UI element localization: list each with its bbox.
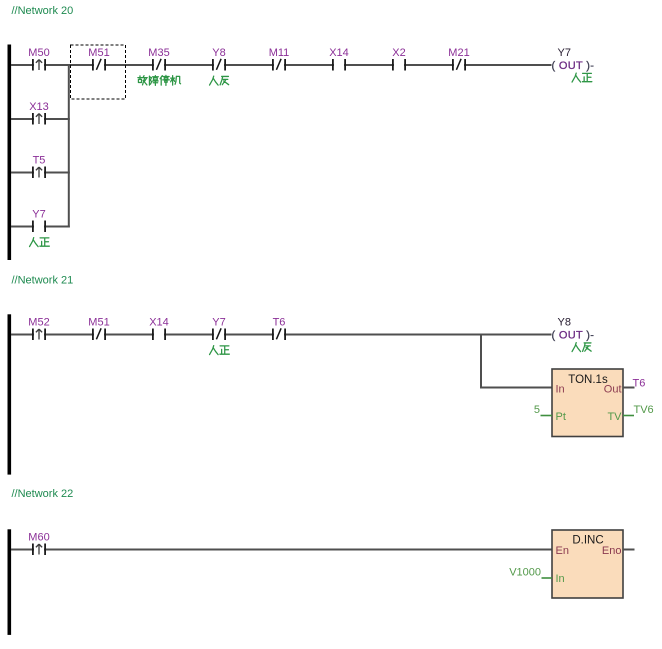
svg-text:In: In: [556, 383, 565, 395]
svg-text:5: 5: [534, 404, 540, 416]
coil Y8 (OUT): [552, 317, 595, 342]
net label TV6 at TV: [634, 404, 654, 416]
label 入反 under coil Y8: [572, 343, 591, 352]
pin In (D.INC): [556, 573, 565, 585]
wire: branch row Y7: [11, 226, 70, 228]
contact X14b (NO) at x=159: [149, 317, 169, 342]
dashed selection box around M51: [71, 45, 126, 99]
svg-text:Y7: Y7: [212, 317, 225, 329]
pin Out (TON): [604, 383, 622, 395]
value 5 at Pt: [534, 404, 540, 416]
svg-text:M35: M35: [148, 47, 169, 59]
svg-text:( OUT )-: ( OUT )-: [552, 330, 595, 342]
svg-text:TV: TV: [607, 411, 622, 423]
comment //Network 22: [12, 488, 74, 500]
svg-text:Pt: Pt: [556, 411, 566, 423]
function block U2 D.INC: [552, 530, 623, 598]
svg-text:M11: M11: [269, 47, 290, 59]
contact M11 (NC) at x=279: [269, 47, 290, 72]
net label T6 at Out: [633, 378, 646, 390]
svg-text:M50: M50: [28, 47, 49, 59]
wire: branch row T5: [11, 172, 70, 174]
svg-text:TON.1s: TON.1s: [568, 374, 608, 386]
pin Eno (D.INC): [602, 545, 622, 557]
pin Pt (TON): [556, 411, 566, 423]
value V1000 at In: [509, 567, 541, 579]
contact T6 (NC) at x=279: [272, 317, 286, 342]
svg-text:En: En: [556, 545, 569, 557]
wire: branch down to TON In: [480, 334, 552, 389]
wire: Eno pin stub: [623, 549, 635, 551]
svg-text:Y8: Y8: [212, 47, 225, 59]
wire: In pin green stub (V1000): [542, 577, 553, 579]
contact M35 (NC) at x=159: [148, 47, 169, 72]
wire: parallel branch vertical: [68, 64, 70, 228]
wire: rung 1 Network 21: [11, 334, 552, 336]
svg-text:V1000: V1000: [509, 567, 541, 579]
svg-text:D.INC: D.INC: [572, 535, 603, 547]
svg-text:M51: M51: [88, 47, 109, 59]
contact X13 (P) at x=39: [29, 101, 49, 126]
contact Y7b (NO) at x=39: [32, 209, 46, 234]
contact T5 (P) at x=39: [32, 155, 46, 180]
contact M60 (P) at x=39: [28, 532, 49, 557]
svg-text:X14: X14: [149, 317, 169, 329]
label 入正 under coil Y7: [572, 73, 592, 82]
svg-text:TV6: TV6: [634, 404, 654, 416]
pin TV (TON): [607, 411, 622, 423]
wire: rung 1 Network 22: [11, 549, 552, 551]
svg-text:T6: T6: [273, 317, 286, 329]
svg-text:Y7: Y7: [558, 47, 571, 59]
svg-text:Y7: Y7: [32, 209, 45, 221]
wire: Out pin stub to T6: [623, 387, 635, 389]
contact M51b (NC) at x=99: [88, 317, 109, 342]
svg-text:( OUT )-: ( OUT )-: [552, 60, 595, 72]
wire: Pt pin green stub: [541, 415, 553, 417]
svg-text:M60: M60: [28, 532, 49, 544]
contact X14 (NO) at x=339: [329, 47, 349, 72]
svg-text:Eno: Eno: [602, 545, 622, 557]
svg-text:In: In: [556, 573, 565, 585]
label 入正 under Y7b: [30, 238, 50, 247]
svg-text://Network 21: //Network 21: [12, 275, 74, 287]
contact Y7c (NC) at x=219: [212, 317, 226, 342]
comment //Network 21: [12, 275, 74, 287]
wire: rung 1 Network 20: [11, 64, 552, 66]
svg-text:X13: X13: [29, 101, 49, 113]
left power rail (Network 20): [8, 45, 12, 261]
contact Y8 (NC) at x=219: [212, 47, 226, 72]
contact M52 (P) at x=39: [28, 317, 49, 342]
comment //Network 20: [12, 5, 74, 17]
contact M50 (P) at x=39: [28, 47, 49, 72]
svg-text:T5: T5: [33, 155, 46, 167]
contact M21 (NC) at x=459: [448, 47, 469, 72]
svg-text:M51: M51: [88, 317, 109, 329]
pin In (TON): [556, 383, 565, 395]
svg-text:X2: X2: [392, 47, 405, 59]
coil Y7 (OUT): [552, 47, 595, 72]
svg-text:M52: M52: [28, 317, 49, 329]
svg-text:T6: T6: [633, 378, 646, 390]
wire: branch row X13: [11, 118, 70, 120]
label 故障停机 under M35: [138, 75, 181, 85]
svg-text://Network 22: //Network 22: [12, 488, 74, 500]
label 入正 under Y7c: [210, 346, 230, 355]
wire: TV pin green stub: [623, 415, 634, 417]
svg-text:M21: M21: [448, 47, 469, 59]
svg-text:Out: Out: [604, 383, 622, 395]
pin En (D.INC): [556, 545, 569, 557]
left power rail (Network 21): [8, 314, 12, 474]
svg-text:Y8: Y8: [558, 317, 571, 329]
svg-text:X14: X14: [329, 47, 349, 59]
contact M51 (NC) at x=99: [88, 47, 109, 72]
left power rail (Network 22): [8, 529, 12, 635]
svg-text://Network 20: //Network 20: [12, 5, 74, 17]
label 入反 under Y8: [210, 76, 229, 85]
function block U1 TON.1s: [552, 369, 623, 437]
contact X2 (NO) at x=399: [392, 47, 406, 72]
